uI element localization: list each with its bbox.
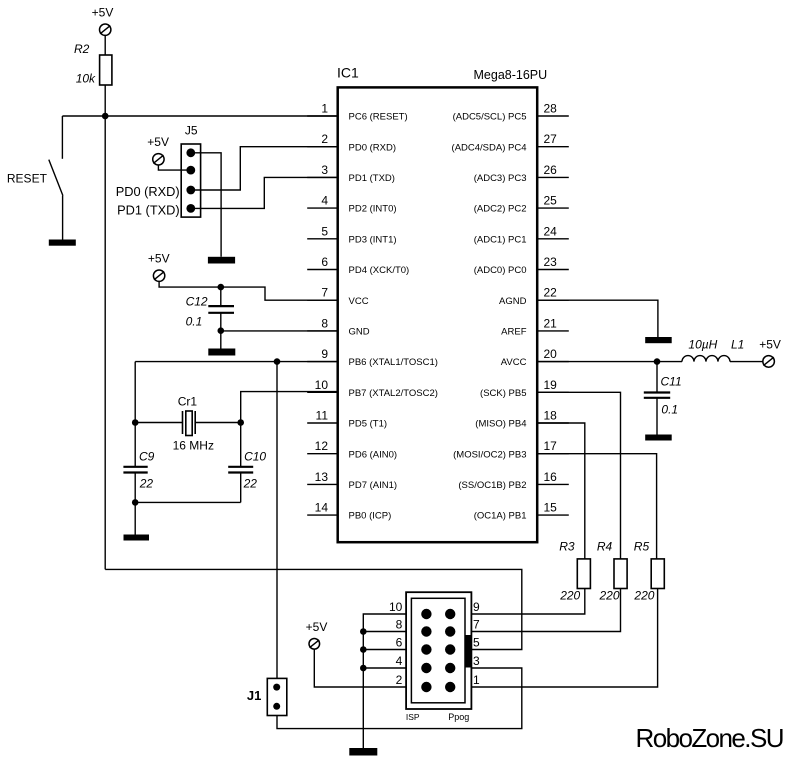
svg-text:C9: C9 bbox=[139, 449, 155, 463]
pin 21 stub bbox=[537, 330, 569, 332]
ISP pin dot row 2 left bbox=[421, 626, 431, 636]
ground (C11) bbox=[645, 435, 672, 441]
pin 14 stub bbox=[307, 514, 338, 516]
ground (AGND) bbox=[645, 337, 672, 343]
wire ISP pin 10 to ground rail bbox=[363, 614, 406, 748]
svg-text:10: 10 bbox=[315, 378, 329, 392]
wire C9/C10 bottoms bbox=[135, 501, 241, 503]
svg-text:1: 1 bbox=[473, 673, 480, 687]
connector ISP inner box bbox=[411, 598, 465, 703]
wire IC pin 20 (AVCC) to inductor bbox=[537, 361, 682, 363]
wire R2 to reset node bbox=[104, 85, 106, 116]
svg-text:+5V: +5V bbox=[759, 338, 781, 352]
pin 3 J5 bbox=[186, 186, 195, 195]
svg-text:Mega8-16PU: Mega8-16PU bbox=[474, 68, 548, 82]
pin 24 stub bbox=[537, 238, 569, 240]
svg-text:10k: 10k bbox=[76, 72, 96, 86]
svg-text:(ADC1) PC1: (ADC1) PC1 bbox=[474, 234, 527, 245]
ground (ISP) bbox=[349, 748, 377, 756]
svg-text:PD1 (TXD): PD1 (TXD) bbox=[349, 173, 395, 184]
svg-text:(OC1A) PB1: (OC1A) PB1 bbox=[474, 511, 527, 522]
svg-text:IC1: IC1 bbox=[337, 65, 359, 81]
svg-text:9: 9 bbox=[321, 347, 328, 361]
svg-text:4: 4 bbox=[321, 194, 328, 208]
wire C12 to IC pin 8 (GND) bbox=[221, 330, 338, 332]
svg-text:6: 6 bbox=[321, 255, 328, 269]
node GND/C12 junction bbox=[218, 327, 225, 334]
svg-text:17: 17 bbox=[544, 439, 558, 453]
wire inductor to +5V bbox=[730, 361, 763, 363]
svg-text:16 MHz: 16 MHz bbox=[173, 439, 214, 453]
node crystal left junction bbox=[132, 419, 139, 426]
svg-text:Ppog: Ppog bbox=[448, 712, 469, 722]
wire reset net bottom loop to ISP pin 5 bbox=[105, 569, 522, 649]
pin 10 stub bbox=[307, 391, 338, 393]
svg-text:PD4 (XCK/T0): PD4 (XCK/T0) bbox=[349, 265, 410, 276]
svg-text:R4: R4 bbox=[597, 540, 613, 554]
pin 5 stub bbox=[307, 238, 338, 240]
svg-text:RESET: RESET bbox=[7, 172, 48, 186]
svg-text:19: 19 bbox=[544, 378, 558, 392]
svg-text:3: 3 bbox=[473, 654, 480, 668]
svg-text:28: 28 bbox=[544, 102, 558, 116]
ISP pin dot row 5 left bbox=[421, 682, 431, 692]
pin 11 stub bbox=[307, 422, 338, 424]
wire ISP pin 4 stub bbox=[363, 667, 406, 669]
node AVCC/C11 junction bbox=[654, 358, 661, 365]
pin 18 stub bbox=[537, 422, 569, 424]
svg-text:14: 14 bbox=[315, 501, 329, 515]
connector ISP outer box bbox=[406, 592, 471, 709]
svg-text:7: 7 bbox=[321, 286, 328, 300]
node ISP pin 6 junction bbox=[360, 646, 367, 653]
svg-text:16: 16 bbox=[544, 470, 558, 484]
svg-text:PD1 (TXD): PD1 (TXD) bbox=[117, 203, 180, 218]
svg-text:PB7 (XTAL2/TOSC2): PB7 (XTAL2/TOSC2) bbox=[349, 388, 438, 399]
wire ISP pin 6 stub bbox=[363, 649, 406, 651]
svg-text:21: 21 bbox=[544, 316, 558, 330]
wire XTAL1 down to crystal left bbox=[134, 362, 136, 423]
+5V supply terminal (J5) bbox=[147, 135, 169, 165]
svg-text:R5: R5 bbox=[634, 540, 650, 554]
wire C12 to ground bbox=[220, 331, 222, 349]
connector J1 bbox=[247, 678, 287, 715]
svg-text:24: 24 bbox=[544, 224, 558, 238]
svg-text:Cr1: Cr1 bbox=[178, 395, 198, 409]
wire crystal horizontal bbox=[135, 422, 241, 424]
svg-text:PD5 (T1): PD5 (T1) bbox=[349, 419, 388, 430]
svg-text:PB6 (XTAL1/TOSC1): PB6 (XTAL1/TOSC1) bbox=[349, 357, 438, 368]
svg-text:(MOSI/OC2) PB3: (MOSI/OC2) PB3 bbox=[453, 449, 526, 460]
svg-text:J1: J1 bbox=[247, 688, 261, 703]
ground (C12) bbox=[208, 349, 235, 356]
svg-text:25: 25 bbox=[544, 194, 558, 208]
ISP key notch bbox=[465, 635, 472, 668]
svg-text:5: 5 bbox=[321, 224, 328, 238]
wire IC pin 19 (SCK) to R4 bbox=[537, 392, 620, 559]
wire +5V to ISP pin 2 bbox=[314, 649, 406, 687]
ISP pin dot row 2 right bbox=[445, 626, 455, 636]
pin 2 stub bbox=[307, 146, 338, 148]
svg-text:(SS/OC1B) PB2: (SS/OC1B) PB2 bbox=[458, 480, 526, 491]
ISP pin dot row 1 left bbox=[421, 609, 431, 619]
pin 22 stub bbox=[537, 299, 569, 301]
pin 27 stub bbox=[537, 146, 569, 148]
node XTAL1/J1 junction bbox=[274, 358, 281, 365]
node reset junction bbox=[102, 113, 109, 120]
wire reset net horizontal to IC pin 1 bbox=[62, 115, 337, 117]
ground (crystal caps) bbox=[124, 535, 150, 541]
svg-text:PD2 (INT0): PD2 (INT0) bbox=[349, 204, 397, 215]
pin 23 stub bbox=[537, 269, 569, 271]
node C9 bottom junction bbox=[132, 499, 139, 506]
pin 1 J1 bbox=[273, 684, 280, 691]
svg-text:27: 27 bbox=[544, 132, 558, 146]
wire IC pin 17 (MOSI) to R5 bbox=[537, 454, 656, 559]
node VCC/C12 junction bbox=[218, 284, 225, 291]
wire +5V to R2 bbox=[104, 35, 106, 55]
svg-text:PD6 (AIN0): PD6 (AIN0) bbox=[349, 449, 398, 460]
svg-text:GND: GND bbox=[349, 327, 370, 338]
svg-text:3: 3 bbox=[321, 163, 328, 177]
svg-text:+5V: +5V bbox=[148, 252, 170, 266]
svg-text:220: 220 bbox=[559, 589, 580, 603]
wire +5V to VCC pin 7 bbox=[159, 281, 338, 300]
svg-text:9: 9 bbox=[473, 600, 480, 614]
svg-text:C12: C12 bbox=[186, 295, 208, 309]
wire switch to ground bbox=[62, 196, 64, 240]
pin 2 J1 bbox=[273, 703, 280, 710]
svg-text:PC6 (RESET): PC6 (RESET) bbox=[349, 112, 408, 123]
pin 4 J5 bbox=[186, 204, 195, 213]
svg-text:(ADC2) PC2: (ADC2) PC2 bbox=[474, 204, 527, 215]
pin 19 stub bbox=[537, 391, 569, 393]
connector J5 bbox=[181, 124, 200, 218]
pin 4 stub bbox=[307, 207, 338, 209]
svg-text:C11: C11 bbox=[661, 375, 682, 389]
ground (reset switch) bbox=[49, 240, 76, 246]
svg-text:8: 8 bbox=[321, 316, 328, 330]
ground (J5) bbox=[208, 257, 235, 264]
svg-text:+5V: +5V bbox=[147, 135, 169, 149]
wire J5 pin 3 to IC pin 2 (PD0 RXD) bbox=[191, 147, 338, 190]
svg-text:PD3 (INT1): PD3 (INT1) bbox=[349, 234, 397, 245]
svg-text:RoboZone.SU: RoboZone.SU bbox=[636, 723, 785, 753]
ISP pin dot row 1 right bbox=[445, 609, 455, 619]
svg-text:+5V: +5V bbox=[92, 5, 114, 19]
capacitor C9 22 bbox=[123, 423, 154, 503]
pin 15 stub bbox=[537, 514, 569, 516]
pin 7 stub bbox=[307, 299, 338, 301]
svg-text:+5V: +5V bbox=[306, 620, 328, 634]
capacitor C11 0.1 bbox=[644, 362, 682, 435]
svg-text:11: 11 bbox=[316, 409, 329, 423]
svg-text:22: 22 bbox=[544, 286, 558, 300]
wire IC pin 10 (XTAL2) to crystal right bbox=[241, 392, 338, 423]
capacitor C10 22 bbox=[228, 423, 266, 503]
pin 1 stub bbox=[307, 115, 338, 117]
svg-text:AVCC: AVCC bbox=[501, 357, 527, 368]
svg-text:C10: C10 bbox=[244, 449, 266, 463]
svg-text:4: 4 bbox=[396, 654, 403, 668]
svg-text:J5: J5 bbox=[185, 124, 198, 138]
svg-text:AREF: AREF bbox=[501, 327, 527, 338]
node ISP pin 4 junction bbox=[360, 665, 367, 672]
svg-text:(ADC3) PC3: (ADC3) PC3 bbox=[474, 173, 527, 184]
svg-text:20: 20 bbox=[544, 347, 558, 361]
svg-text:0.1: 0.1 bbox=[186, 315, 203, 329]
wire reset net long vertical bbox=[104, 116, 106, 569]
svg-text:10µH: 10µH bbox=[688, 338, 717, 352]
pin 13 stub bbox=[307, 483, 338, 485]
svg-text:18: 18 bbox=[544, 409, 558, 423]
svg-text:PB0 (ICP): PB0 (ICP) bbox=[349, 511, 392, 522]
svg-text:220: 220 bbox=[599, 589, 620, 603]
svg-text:VCC: VCC bbox=[349, 296, 369, 307]
pin 9 stub bbox=[307, 361, 338, 363]
svg-text:12: 12 bbox=[315, 439, 329, 453]
pin 8 stub bbox=[307, 330, 338, 332]
wire XTAL1 junction down to J1 bbox=[276, 362, 278, 679]
pin 2 J5 bbox=[186, 166, 195, 175]
pin 12 stub bbox=[307, 453, 338, 455]
resistor R4 220 bbox=[597, 540, 627, 603]
svg-text:PD0 (RXD): PD0 (RXD) bbox=[349, 142, 397, 153]
ISP pin dot row 4 left bbox=[421, 663, 431, 673]
pin 28 stub bbox=[537, 115, 569, 117]
pin 1 J5 bbox=[186, 148, 195, 157]
resistor R5 220 bbox=[633, 540, 664, 603]
crystal Cr1 16 MHz bbox=[173, 395, 214, 453]
svg-text:2: 2 bbox=[396, 673, 403, 687]
svg-text:8: 8 bbox=[396, 617, 403, 631]
wire R3 to ISP pin 9 bbox=[471, 589, 584, 615]
svg-text:15: 15 bbox=[544, 501, 558, 515]
svg-text:0.1: 0.1 bbox=[661, 403, 678, 417]
svg-text:10: 10 bbox=[389, 600, 403, 614]
pin 26 stub bbox=[537, 176, 569, 178]
+5V supply terminal (VCC) bbox=[148, 252, 170, 282]
svg-text:1: 1 bbox=[321, 102, 328, 116]
svg-text:5: 5 bbox=[473, 635, 480, 649]
ISP pin dot row 3 right bbox=[445, 644, 455, 654]
svg-text:(ADC0) PC0: (ADC0) PC0 bbox=[474, 265, 527, 276]
wire R4 to ISP pin 7 bbox=[471, 589, 620, 632]
svg-text:26: 26 bbox=[544, 163, 558, 177]
wire to ground (crystal) bbox=[134, 502, 136, 534]
svg-text:R2: R2 bbox=[74, 42, 90, 56]
resistor R3 220 bbox=[559, 540, 590, 603]
node ISP pin 8 junction bbox=[360, 628, 367, 635]
capacitor C12 0.1 bbox=[186, 287, 234, 330]
svg-text:22: 22 bbox=[243, 477, 258, 491]
svg-text:(ADC4/SDA) PC4: (ADC4/SDA) PC4 bbox=[452, 142, 527, 153]
svg-text:AGND: AGND bbox=[499, 296, 527, 307]
svg-text:(ADC5/SCL) PC5: (ADC5/SCL) PC5 bbox=[453, 112, 527, 123]
switch RESET bbox=[7, 160, 63, 196]
wire +5V to J5 pin 2 bbox=[158, 165, 190, 170]
wire down to switch bbox=[61, 116, 63, 159]
+5V supply terminal (ISP) bbox=[306, 620, 328, 649]
pin 17 stub bbox=[537, 453, 569, 455]
svg-text:7: 7 bbox=[473, 617, 480, 631]
inductor L1 10uH bbox=[682, 338, 744, 362]
pin 25 stub bbox=[537, 207, 569, 209]
ISP pin dot row 4 right bbox=[445, 663, 455, 673]
svg-text:13: 13 bbox=[315, 470, 329, 484]
svg-text:2: 2 bbox=[321, 132, 328, 146]
wire IC pin 22 (AGND) to ground bbox=[537, 300, 658, 337]
pin 16 stub bbox=[537, 483, 569, 485]
wire J5 pin 4 to IC pin 3 (PD1 TXD) bbox=[191, 177, 338, 208]
svg-text:6: 6 bbox=[396, 635, 403, 649]
svg-text:ISP: ISP bbox=[406, 712, 420, 722]
svg-text:PD7 (AIN1): PD7 (AIN1) bbox=[349, 480, 398, 491]
svg-text:220: 220 bbox=[633, 589, 654, 603]
svg-text:(SCK) PB5: (SCK) PB5 bbox=[480, 388, 526, 399]
pin 20 stub bbox=[537, 361, 569, 363]
ISP pin dot row 3 left bbox=[421, 644, 431, 654]
+5V supply terminal (reset pull-up) bbox=[92, 5, 114, 35]
wire IC pin 18 (MISO) to R3 bbox=[537, 423, 585, 559]
+5V supply terminal (AVCC) bbox=[759, 338, 781, 368]
svg-text:PD0 (RXD): PD0 (RXD) bbox=[116, 184, 180, 199]
pin 6 stub bbox=[307, 269, 338, 271]
svg-text:R3: R3 bbox=[559, 540, 575, 554]
op-amp U1 body: IC1 Mega8-16PU bbox=[338, 87, 538, 542]
resistor R2 10k bbox=[74, 42, 112, 86]
ISP pin dot row 5 right bbox=[445, 682, 455, 692]
svg-text:23: 23 bbox=[544, 255, 558, 269]
node crystal right junction bbox=[237, 419, 244, 426]
wire J5 pin 1 to ground bbox=[191, 153, 221, 257]
svg-text:(MISO) PB4: (MISO) PB4 bbox=[475, 419, 526, 430]
svg-text:22: 22 bbox=[139, 477, 154, 491]
wire R5 to ISP pin 1 bbox=[471, 589, 657, 688]
pin 3 stub bbox=[307, 176, 338, 178]
svg-text:L1: L1 bbox=[731, 338, 744, 352]
wire ISP pin 3 to J1 loop bbox=[277, 668, 522, 729]
wire ISP pin 8 stub bbox=[363, 631, 406, 633]
wire IC pin 9 (XTAL1) left bbox=[135, 361, 338, 363]
